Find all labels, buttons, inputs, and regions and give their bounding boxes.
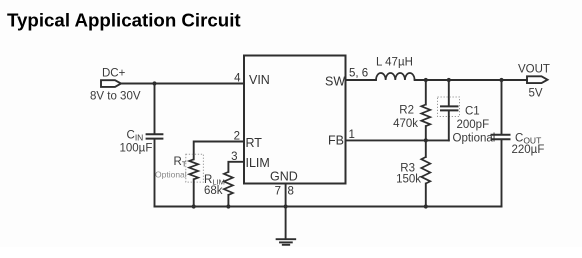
wire R2 upper [425, 80, 427, 105]
connector DC+ input terminal [101, 80, 121, 87]
resistor R3 [421, 157, 430, 183]
wire CIN upper [154, 84, 156, 133]
wire SW output [346, 79, 377, 81]
wire COUT upper [501, 80, 503, 134]
wire GND pins 7 8 [285, 184, 287, 239]
node junction R2 top [424, 78, 428, 82]
svg-text:470k: 470k [393, 118, 418, 130]
svg-text:DC+: DC+ [102, 68, 126, 80]
svg-text:RT: RT [246, 136, 263, 150]
wire inductor to VOUT [415, 79, 527, 81]
svg-text:GND: GND [270, 170, 298, 184]
wire RT pin 2 [194, 142, 244, 160]
svg-text:SW: SW [325, 75, 345, 89]
resistor RLIM [224, 172, 233, 195]
capacitor C1 [440, 106, 459, 110]
node junction RLIM bus [226, 204, 230, 208]
svg-text:Optional: Optional [453, 133, 496, 145]
svg-text:220µF: 220µF [512, 144, 545, 156]
wire ILIM pin 3 [228, 162, 244, 172]
svg-text:L 47µH: L 47µH [376, 56, 413, 68]
wire RLIM lower [227, 195, 229, 207]
node junction R2 R3 FB [424, 138, 428, 142]
wire ground bus [155, 206, 502, 208]
svg-text:8V to 30V: 8V to 30V [90, 91, 141, 103]
svg-text:5V: 5V [529, 88, 543, 100]
svg-text:FB: FB [328, 134, 344, 148]
svg-text:VOUT: VOUT [518, 64, 550, 76]
wire R2 lower [425, 126, 427, 140]
node junction GND bus [284, 204, 288, 208]
svg-text:1: 1 [349, 129, 355, 141]
svg-text:VIN: VIN [249, 73, 270, 87]
svg-text:150k: 150k [396, 174, 421, 186]
wire RT lower [193, 179, 195, 206]
ground [277, 239, 296, 245]
wire COUT lower [501, 141, 503, 207]
inductor L 47uH [376, 73, 415, 80]
wire R3 lower [425, 184, 427, 207]
capacitor CIN [146, 134, 164, 138]
svg-text:ILIM: ILIM [246, 156, 270, 170]
svg-text:C1: C1 [465, 106, 480, 118]
node junction C1 top [447, 78, 451, 82]
svg-text:Optional: Optional [155, 170, 187, 180]
svg-text:100µF: 100µF [120, 143, 153, 155]
svg-text:68k: 68k [204, 185, 223, 197]
wire R3 upper [425, 140, 427, 157]
capacitor COUT [491, 135, 511, 140]
dotted box RT optional [186, 154, 204, 182]
node junction RT bus [192, 204, 196, 208]
IC U1 regulator body [244, 56, 346, 184]
resistor R2 [421, 105, 430, 127]
resistor RT optional [189, 159, 198, 179]
svg-text:8: 8 [288, 186, 294, 198]
dotted box C1 optional [438, 97, 460, 117]
wire C1 lower [448, 111, 450, 140]
svg-text:R2: R2 [399, 105, 414, 117]
wire FB pin 1 [346, 139, 449, 141]
svg-text:R3: R3 [400, 163, 415, 175]
svg-text:5, 6: 5, 6 [349, 68, 368, 80]
node junction CIN [152, 81, 156, 85]
wire C1 upper [448, 80, 450, 105]
node junction COUT top [499, 78, 503, 82]
wire VIN input [121, 83, 244, 85]
svg-text:7: 7 [275, 186, 281, 198]
node junction R3 bus [424, 204, 428, 208]
connector VOUT output terminal [527, 76, 548, 83]
svg-text:200pF: 200pF [457, 119, 490, 131]
wire CIN lower to ground bus [154, 140, 156, 207]
svg-text:Typical Application Circuit: Typical Application Circuit [7, 9, 241, 30]
